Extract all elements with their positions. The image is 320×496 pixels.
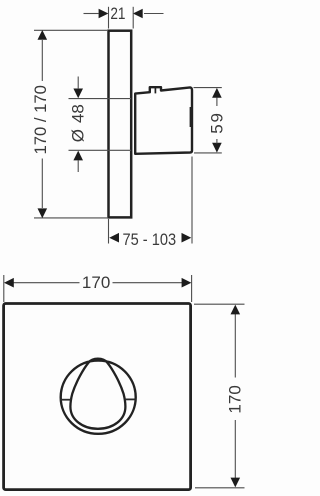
dimension 59 extension line top bbox=[194, 87, 222, 89]
dimension 75-103 arrows bbox=[109, 233, 191, 243]
front view dimension 170 line bbox=[13, 282, 182, 284]
dimension 170/170 arrows bbox=[38, 30, 48, 218]
dimension 75-103 extension line right bbox=[191, 157, 193, 244]
right dimension 170 line bbox=[234, 314, 236, 478]
knob outer circle bbox=[61, 361, 136, 434]
handle tab divider bbox=[154, 87, 156, 93]
svg-text:170: 170 bbox=[82, 273, 110, 292]
front view dimension 170 extension line left bbox=[3, 275, 5, 302]
plate side view bbox=[109, 31, 132, 218]
handle face inner edge bbox=[189, 107, 191, 127]
dimension 21 extension lines bbox=[109, 7, 134, 29]
right dimension 170 extension line top bbox=[194, 303, 245, 305]
svg-text:Ø48: Ø48 bbox=[69, 104, 88, 142]
dimension 21 line bbox=[84, 13, 164, 15]
dimension 21 arrows bbox=[99, 9, 143, 19]
front view dimension 170 arrows bbox=[4, 278, 191, 288]
front view dimension 170 extension line right bbox=[191, 275, 193, 302]
dimension Ø48 extension line bottom bbox=[69, 149, 132, 151]
dimension 59 arrows bbox=[212, 88, 222, 153]
dimension 170/170 extension line top bbox=[34, 29, 107, 31]
handle side view bbox=[135, 87, 192, 154]
svg-text:59: 59 bbox=[208, 113, 227, 134]
dimension 59 extension line bottom bbox=[194, 152, 222, 154]
knob mid tick left bbox=[60, 399, 71, 401]
front plate square bbox=[4, 304, 191, 490]
dimension 170/170 line bbox=[41, 40, 43, 208]
knob grip egg shape bbox=[70, 359, 125, 429]
svg-text:170: 170 bbox=[225, 385, 244, 413]
dimension 170/170 extension line bottom bbox=[34, 217, 107, 219]
dimension Ø48 extension line top bbox=[69, 98, 132, 100]
svg-text:21: 21 bbox=[110, 5, 125, 24]
svg-text:170 / 170: 170 / 170 bbox=[31, 85, 50, 154]
right dimension 170 extension line bottom bbox=[195, 487, 245, 489]
svg-text:75 - 103: 75 - 103 bbox=[122, 231, 176, 249]
dimension Ø48 arrows bbox=[73, 89, 83, 161]
knob mid tick right bbox=[124, 398, 136, 400]
right dimension 170 arrows bbox=[231, 305, 241, 488]
dimension 59 line bbox=[216, 98, 218, 144]
dimension 75-103 extension line left bbox=[108, 219, 110, 244]
